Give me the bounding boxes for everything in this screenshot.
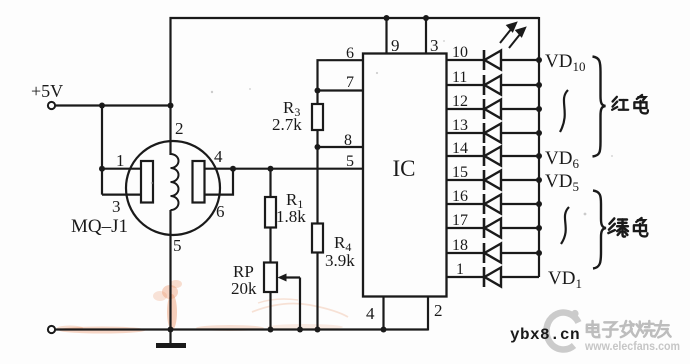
terminal +5V input [48,102,55,109]
junction pin4/pin6 [230,166,236,172]
wire coil bottom (pin 5) to ground rail [169,210,171,330]
ground symbol [169,330,171,345]
svg-text:9: 9 [391,36,400,55]
svg-text:6: 6 [216,202,225,221]
node +5V junction on vertical [168,103,174,109]
terminal ground input [48,326,55,333]
junction VD7 bus [536,130,542,136]
svg-text:16: 16 [452,188,468,205]
wire RP wiper to ground rail [299,278,301,330]
wire IC pin 4 to ground rail [382,297,384,330]
wire heater drop (pins 1,3) [101,106,103,195]
svg-text:3: 3 [430,36,439,55]
svg-text:ybx8.cn: ybx8.cn [510,326,580,344]
wire R3-R4 vertical (crosses pin5 wire) [316,147,318,224]
junction VD3 bus [536,225,542,231]
wire IC pin 2 to ground rail [427,297,429,331]
diode VD5 [484,170,501,190]
scan stain marks (orange) [57,280,343,334]
scan speckles [151,40,613,215]
wire VD4 to bus [501,203,539,205]
svg-text:MQ–J1: MQ–J1 [71,216,128,237]
svg-text:12: 12 [452,93,468,110]
svg-text:3: 3 [112,197,121,216]
wire R1 to RP [269,228,271,263]
svg-text:20k: 20k [231,279,257,298]
brace green LED group [593,191,606,269]
svg-text:5: 5 [173,236,182,255]
junction VD6 bus [536,153,542,159]
svg-text:13: 13 [452,117,468,134]
resistor R1 body [265,197,276,228]
wire IC pin 1 to VD1 [447,276,485,278]
wire sensor pin 6 [205,169,234,195]
watermark logo swirl [546,310,578,350]
resistor R4 body [312,224,323,253]
diode VD7 [484,123,501,143]
wire VD9 to bus [501,84,539,86]
junction RP wiper ground [297,327,303,333]
svg-text:2: 2 [434,301,443,320]
brace red LED group [593,57,606,157]
inductor heater coil [171,154,179,210]
junction R3 top [315,88,321,94]
label green group (绿色) [608,218,627,236]
svg-text:3.9k: 3.9k [325,251,355,270]
junction VD2 bus [536,250,542,256]
diode VD10 [484,50,501,70]
resistor R3 body [312,104,323,130]
wire ground rail [55,328,428,330]
svg-text:1: 1 [116,151,125,170]
junction RP bottom ground [268,327,274,333]
wire IC pin 11 to VD9 [447,84,485,86]
wire +5V feed [55,104,171,106]
wire RP bottom lead to ground rail [269,292,271,330]
wire sensor pin 1 [99,166,105,172]
wire VD3 to bus [501,227,539,229]
junction coil/ground rail [168,327,174,333]
wire IC pin 16 to VD4 [447,203,485,205]
diode VD9 [484,75,501,95]
wire VD8 to bus [501,108,539,110]
wire IC pin 17 to VD3 [447,227,485,229]
svg-text:2: 2 [175,119,184,138]
svg-text:10: 10 [452,44,468,61]
diode VD1 [484,267,501,287]
wire left vertical from top bus to +5V node [169,17,171,106]
wire R1 top lead [269,169,271,197]
wire IC pin 10 to VD10 [447,59,485,61]
watermark brand glyphs [587,321,599,337]
wire R4 bottom lead to ground rail [316,253,318,330]
wire IC pin 6 [318,60,364,90]
svg-text:4: 4 [366,304,375,323]
label red group (红色) [612,97,628,110]
wire IC pin 15 to VD5 [447,179,485,181]
electrode left plate [141,161,153,203]
wire VD6 to bus [501,155,539,157]
wire IC pin 12 to VD8 [447,108,485,110]
wire IC pin 7 [318,89,364,91]
junction R4 ground [315,327,321,333]
junction R1 top on pin5 net [268,166,274,172]
svg-text:6: 6 [346,45,354,62]
wire R3 top lead [316,91,318,105]
LED light emission arrows [500,23,525,48]
svg-text:+5V: +5V [31,81,63,101]
continuation squiggle red group [560,90,568,132]
wire IC pin 3 supply [423,15,429,21]
wire VD10 to bus [501,59,539,61]
continuation squiggle green group [561,207,569,244]
svg-text:11: 11 [452,69,467,86]
junction VD9 bus [536,82,542,88]
junction VD10 bus [536,57,542,63]
svg-text:4: 4 [214,147,223,166]
RP wiper arrow [283,276,300,278]
svg-text:17: 17 [452,212,468,229]
diode VD3 [484,218,501,238]
svg-text:IC: IC [393,156,416,181]
wire VD7 to bus [501,132,539,134]
junction VD4 bus [536,201,542,207]
wire IC pin 9 supply [384,15,390,21]
diode VD4 [484,194,501,214]
junction VD5 bus [536,177,542,183]
wire VD1 to bus [501,276,539,278]
wire sensor pin 4 to IC pin 5 net [205,168,364,170]
wire top supply bus [170,17,540,19]
svg-text:14: 14 [452,140,468,157]
wire LED anode bus [538,17,540,277]
diode VD6 [484,146,501,166]
electrode right plate [193,161,205,203]
gas sensor MQ-J1 envelope circle [126,141,220,235]
diode VD8 [484,99,501,119]
junction R3/R4/pin8 [315,144,321,150]
svg-text:7: 7 [346,74,354,91]
wire IC pin 18 to VD2 [447,252,485,254]
svg-text:1.8k: 1.8k [276,207,306,226]
wire VD5 to bus [501,179,539,181]
wire sensor pin 3 [102,194,141,196]
svg-text:2.7k: 2.7k [272,115,302,134]
svg-text:www.elecfans.com: www.elecfans.com [584,339,680,353]
svg-text:18: 18 [452,237,468,254]
diode VD2 [484,243,501,263]
svg-text:1: 1 [456,261,464,278]
junction heater branch [99,103,105,109]
junction VD8 bus [536,106,542,112]
wire IC pin 14 to VD6 [447,155,485,157]
potentiometer RP body [264,263,277,293]
svg-text:15: 15 [452,164,468,181]
op-amp / driver IC U1 [363,54,447,297]
svg-text:8: 8 [344,132,352,149]
wire IC pin 13 to VD7 [447,132,485,134]
wire IC pin 8 [318,146,364,148]
wire VD2 to bus [501,252,539,254]
svg-text:5: 5 [346,153,354,170]
wire R3 bottom lead [316,130,318,147]
wire coil top (pin 2) [169,106,171,156]
